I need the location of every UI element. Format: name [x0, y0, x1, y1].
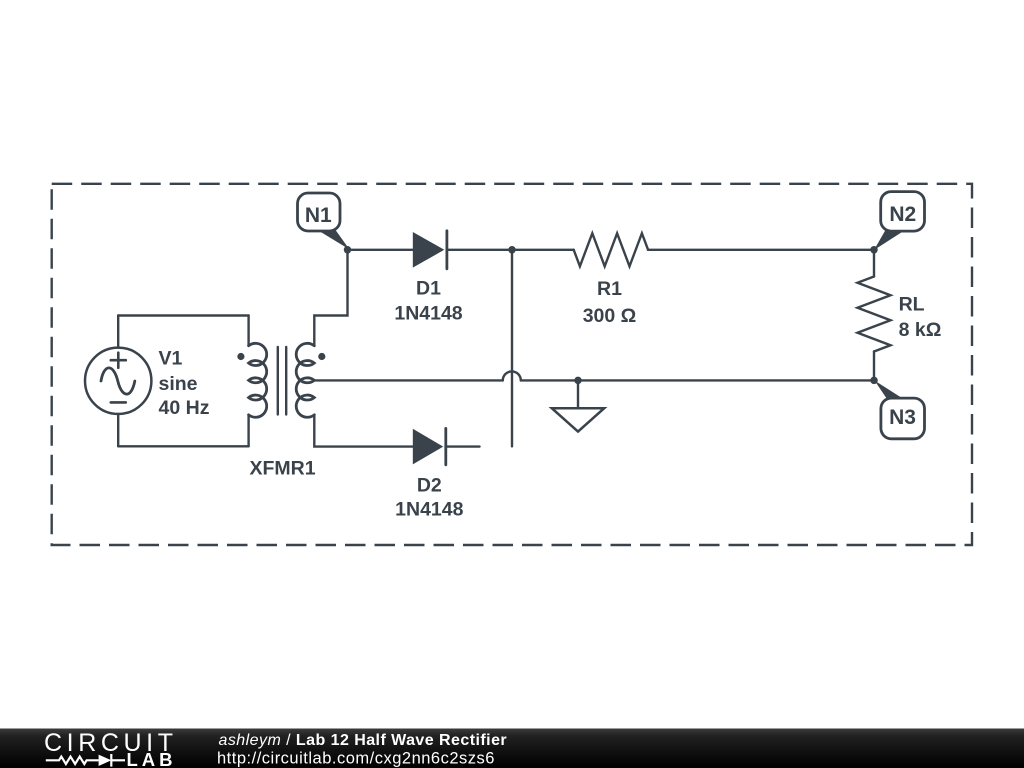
wire primary coil bottom	[247, 415, 249, 447]
wire RL to N3	[873, 352, 875, 381]
voltage source V1	[85, 348, 151, 414]
wire V1 top lead	[117, 316, 119, 348]
CircuitLab logo	[44, 729, 178, 768]
wire N1 to D1	[348, 249, 413, 251]
resistor R1	[574, 233, 648, 266]
wire primary top rail	[118, 314, 248, 316]
svg-text:LAB: LAB	[127, 749, 177, 768]
node N2	[870, 192, 924, 254]
wire primary bottom rail	[118, 445, 248, 447]
wire R1 to N2	[648, 249, 874, 251]
svg-text:XFMR1: XFMR1	[249, 458, 315, 480]
node ground junction	[574, 377, 582, 385]
wire secondary top jog	[314, 250, 347, 346]
svg-text:D2: D2	[417, 475, 442, 497]
svg-text:V1: V1	[159, 348, 183, 370]
svg-text:sine: sine	[159, 373, 198, 395]
wire center tap left of hop	[314, 379, 503, 381]
svg-text:D1: D1	[416, 278, 441, 300]
svg-text:1N4148: 1N4148	[395, 499, 463, 521]
svg-text:8 kΩ: 8 kΩ	[899, 319, 942, 341]
svg-text:N1: N1	[305, 204, 332, 227]
svg-text:http://circuitlab.com/cxg2nn6c: http://circuitlab.com/cxg2nn6c2szs6	[217, 750, 495, 768]
transformer XFMR1	[237, 343, 325, 417]
wire D2 cathode stub	[446, 445, 480, 447]
wire center tap right of hop	[521, 379, 874, 381]
node N1	[298, 193, 352, 254]
svg-text:300 Ω: 300 Ω	[583, 305, 637, 327]
wire hop over vertical	[503, 371, 521, 380]
footer bar	[0, 729, 1024, 768]
node junction D1-R1	[508, 246, 516, 254]
wire N2 down to RL	[873, 250, 875, 277]
wire junction down	[511, 250, 513, 447]
wire primary to coil top	[247, 316, 249, 346]
wire junction to R1	[512, 249, 574, 251]
wire secondary bottom	[314, 415, 413, 447]
svg-text:RL: RL	[899, 294, 925, 316]
svg-text:N3: N3	[889, 406, 916, 429]
resistor RL	[858, 277, 891, 352]
diode D1	[413, 231, 447, 269]
wire V1 bottom lead	[117, 414, 119, 446]
ground	[552, 380, 604, 431]
svg-text:40 Hz: 40 Hz	[159, 397, 210, 419]
svg-text:ashleym / Lab 12 Half Wave Rec: ashleym / Lab 12 Half Wave Rectifier	[219, 732, 508, 749]
wire D1 cathode to junction	[447, 249, 512, 251]
svg-text:1N4148: 1N4148	[394, 303, 462, 325]
svg-text:R1: R1	[597, 278, 622, 300]
svg-text:N2: N2	[889, 203, 916, 226]
diode D2	[413, 428, 446, 464]
node N3	[870, 377, 924, 439]
